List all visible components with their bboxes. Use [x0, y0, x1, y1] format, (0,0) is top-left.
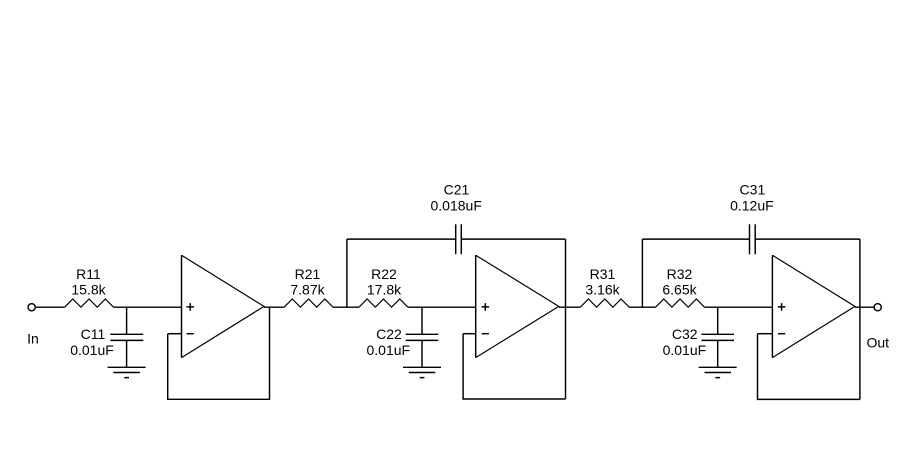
wire C21 right rail — [461, 238, 565, 240]
wire U3 inverting input — [758, 333, 773, 335]
output terminal Out — [874, 304, 881, 311]
pin - (U3) — [778, 333, 785, 335]
svg-text:R22: R22 — [371, 266, 397, 282]
resistor R31 — [580, 299, 629, 307]
svg-text:0.01uF: 0.01uF — [663, 342, 707, 358]
capacitor C32 bottom lead — [717, 340, 719, 367]
wire node A up to C21 rail — [346, 239, 348, 307]
svg-text:Out: Out — [867, 334, 890, 350]
wire input to R11 — [35, 306, 64, 308]
wire C21 left rail — [347, 238, 456, 240]
capacitor C22 bottom lead — [421, 340, 423, 367]
wire R21 to R22 through node A — [333, 306, 359, 308]
svg-text:C11: C11 — [81, 326, 106, 342]
ground (C32) — [699, 367, 737, 377]
op-amp U3 — [771, 255, 773, 357]
wire U1 inverting input — [168, 333, 182, 335]
wire node B up to C31 rail — [641, 239, 643, 307]
wire U2 output to R31 — [559, 306, 581, 308]
svg-text:R11: R11 — [76, 266, 101, 282]
svg-text:R32: R32 — [667, 266, 693, 282]
svg-text:R21: R21 — [295, 266, 321, 282]
wire U3 feedback loop — [758, 334, 860, 400]
wire U1 output to R21 — [264, 306, 284, 308]
capacitor C22 plates — [406, 334, 439, 340]
pin + (U2) — [482, 303, 490, 311]
resistor R32 — [656, 299, 705, 307]
op-amp U2 — [475, 255, 477, 357]
svg-text:15.8k: 15.8k — [71, 281, 106, 297]
resistor R22 — [359, 299, 408, 307]
svg-text:C32: C32 — [672, 326, 698, 342]
wire R31 to R32 through node B — [629, 306, 655, 308]
svg-text:In: In — [27, 330, 39, 346]
svg-text:6.65k: 6.65k — [662, 281, 697, 297]
svg-text:7.87k: 7.87k — [290, 281, 325, 297]
resistor R21 — [284, 299, 333, 307]
svg-text:3.16k: 3.16k — [585, 281, 620, 297]
ground (C22) — [403, 367, 441, 377]
wire U2 output node vertical — [565, 239, 567, 399]
capacitor C22 top lead — [421, 307, 423, 334]
wire U3 output to terminal — [855, 306, 874, 308]
wire R22 to op-amp U2 (+) through node C22 — [408, 306, 476, 308]
pin + (U3) — [778, 303, 786, 311]
wire U2 inverting input — [463, 333, 476, 335]
capacitor C21 — [456, 224, 462, 254]
wire U2 feedback loop — [463, 334, 565, 399]
capacitor C31 — [750, 224, 756, 254]
pin + (U1) — [186, 303, 194, 311]
resistor R11 — [65, 299, 114, 307]
svg-text:C22: C22 — [376, 326, 402, 342]
capacitor C11 top lead — [126, 307, 128, 334]
capacitor C11 plates — [110, 334, 143, 340]
pin - (U1) — [187, 333, 194, 335]
wire U3 output node vertical — [859, 239, 861, 399]
wire R11 to op-amp U1 (+) through node C11 — [114, 306, 182, 308]
svg-text:0.018uF: 0.018uF — [431, 198, 482, 214]
capacitor C32 plates — [701, 334, 734, 340]
svg-text:C21: C21 — [444, 181, 470, 197]
ground (C11) — [108, 367, 146, 377]
pin - (U2) — [482, 333, 489, 335]
svg-text:0.01uF: 0.01uF — [367, 342, 411, 358]
svg-text:C31: C31 — [740, 181, 766, 197]
wire C31 left rail — [642, 238, 749, 240]
capacitor C32 top lead — [717, 307, 719, 334]
svg-text:17.8k: 17.8k — [367, 281, 402, 297]
wire U1 feedback loop — [168, 307, 270, 399]
svg-text:0.01uF: 0.01uF — [70, 342, 114, 358]
op-amp U1 — [181, 255, 183, 357]
svg-text:0.12uF: 0.12uF — [730, 198, 774, 214]
wire R32 to op-amp U3 (+) through node C32 — [705, 306, 773, 308]
input terminal In — [28, 304, 35, 311]
capacitor C11 bottom lead — [126, 340, 128, 367]
svg-text:R31: R31 — [590, 266, 616, 282]
wire C31 right rail — [755, 238, 860, 240]
